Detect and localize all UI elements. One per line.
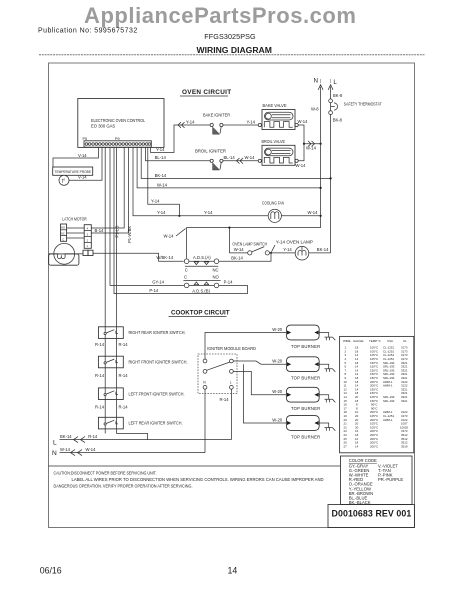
svg-text:DANGEROUS OPERATION. VERIFY PR: DANGEROUS OPERATION. VERIFY PROPER OPERA… [54,483,193,488]
svg-text:R-14: R-14 [220,397,230,402]
latch motor M2 [49,243,79,265]
svg-text:A.D.S.(A): A.D.S.(A) [193,255,211,260]
svg-text:N: N [52,450,57,457]
top burner 1 [272,325,335,349]
wire module L down R-14 [220,389,232,439]
svg-text:BK-14: BK-14 [231,256,243,261]
svg-text:1: 1 [87,244,89,248]
svg-text:Y-14: Y-14 [151,199,160,204]
svg-text:COLOR CODE: COLOR CODE [349,458,377,463]
svg-text:BROIL IGNITER: BROIL IGNITER [195,149,226,154]
wire Y-14 igniter to bake valve [223,119,258,125]
igniter switch right rear [98,327,185,339]
svg-text:Y-14 OVEN LAMP: Y-14 OVEN LAMP [276,240,313,245]
svg-text:Publication No: 5995675732: Publication No: 5995675732 [38,28,138,35]
wire switch chain right [116,147,118,433]
svg-text:GAUGE: GAUGE [353,339,364,343]
svg-text:W-20: W-20 [272,389,283,394]
safety thermostat [329,87,382,123]
svg-text:BROIL VALVE: BROIL VALVE [262,139,286,144]
bake igniter [210,123,223,134]
top burner 4 [272,416,335,440]
supply L line [53,434,231,446]
svg-text:W-20: W-20 [272,359,283,364]
svg-text:BK-14: BK-14 [60,434,72,439]
svg-text:AppliancePartsPros.com: AppliancePartsPros.com [84,3,357,28]
wire GY-14 to ADS B [110,147,184,285]
svg-text:LATCH MOTOR: LATCH MOTOR [62,217,86,222]
svg-text:R-14: R-14 [95,373,105,378]
wire W-14 to N line [304,141,322,150]
svg-text:AWM-1: AWM-1 [383,384,393,388]
svg-text:06/16: 06/16 [40,566,62,576]
svg-text:C: C [184,274,187,279]
title block D0010683 [328,505,414,528]
svg-text:W-14: W-14 [298,119,309,124]
caution separator [49,465,341,467]
svg-text:C: C [185,267,188,272]
wire module to burner 3 [233,371,286,394]
svg-text:EO 300 GAS: EO 300 GAS [91,124,115,129]
wires latch switch to terminal block [67,228,85,238]
svg-text:V-14: V-14 [78,175,87,180]
svg-text:W-14: W-14 [164,233,175,238]
svg-text:R-14: R-14 [95,405,105,410]
color code box [341,456,413,505]
electronic oven control U1 [78,99,164,148]
wire V-14 to temperature probe [53,147,98,167]
svg-text:27: 27 [344,444,348,448]
wire module to burner 4 [243,364,286,423]
svg-text:RIGHT REAR IGNITER SWITCH.: RIGHT REAR IGNITER SWITCH. [129,330,186,335]
wire switch chain left [104,147,106,433]
svg-text:TOP BURNER: TOP BURNER [291,406,320,411]
svg-text:SAFETY THERMOSTAT: SAFETY THERMOSTAT [344,101,382,106]
svg-text:Y-14: Y-14 [204,210,213,215]
svg-text:Y-14: Y-14 [157,210,166,215]
svg-text:RIGHT FRONT IGNITER SWITCH.: RIGHT FRONT IGNITER SWITCH. [129,360,188,365]
svg-text:BK-8: BK-8 [333,117,343,122]
wire V-14 probe return [69,147,102,180]
svg-text:W-14: W-14 [234,247,245,252]
svg-text:Y-14: Y-14 [156,147,165,152]
svg-text:W-8: W-8 [311,107,319,112]
svg-text:AWM-1: AWM-1 [383,418,393,422]
wire W-14 [137,147,322,189]
wire BL-14 / W-14 igniter to broil valve [223,155,258,163]
svg-text:W/BK-14: W/BK-14 [156,255,173,260]
svg-text:LEFT FRONT IGNITER SWITCH.: LEFT FRONT IGNITER SWITCH. [129,391,185,396]
igniter module board [198,346,256,393]
svg-text:3321: 3321 [401,399,408,403]
igniter switch left rear [98,417,182,429]
supply terminal N [314,77,324,90]
broil valve [258,139,306,168]
svg-text:TOP BURNER: TOP BURNER [291,435,320,440]
terminal strip of oven control [84,141,151,147]
svg-text:GY-14: GY-14 [152,279,164,284]
svg-text:NO: NO [213,274,220,279]
oven circuit title [180,89,231,96]
svg-text:Y-14: Y-14 [186,119,195,124]
latch terminal block [84,225,91,249]
wire Y-14 to cooling fan [133,147,268,216]
svg-text:N: N [203,381,206,385]
svg-text:R-14: R-14 [119,342,129,347]
latch switch block [61,224,67,241]
svg-text:TEMPERATURE PROBE: TEMPERATURE PROBE [55,169,92,174]
wire gauge table [340,336,414,452]
svg-text:P1-W/BK: P1-W/BK [127,226,132,243]
igniter switch right front [98,356,187,368]
wire latch to control 2 [91,147,128,233]
svg-text:3519: 3519 [401,444,408,448]
svg-text:TOP BURNER: TOP BURNER [291,344,320,349]
latch motor connector [75,250,93,255]
diagram frame [49,63,415,528]
svg-text:IGNITER MODULE BOARD: IGNITER MODULE BOARD [207,346,256,351]
svg-text:A.D.S.(B): A.D.S.(B) [192,289,210,294]
svg-text:3: 3 [87,232,89,236]
svg-text:R-14: R-14 [119,373,129,378]
terminal circles P5/P9 [85,143,151,146]
cooktop circuit title [169,310,230,317]
wire module to burner 2 [233,361,286,364]
bake valve [258,103,308,129]
svg-text:V-14: V-14 [78,153,87,158]
svg-text:BL-14: BL-14 [155,155,167,160]
supply N line [52,447,205,457]
svg-text:W-20: W-20 [272,417,283,422]
svg-text:BAKE VALVE: BAKE VALVE [263,103,287,108]
svg-text:NO: NO [61,226,65,230]
svg-text:BK-14: BK-14 [155,173,167,178]
svg-text:TOP BURNER: TOP BURNER [291,376,320,381]
svg-text:PR.-PURPLE: PR.-PURPLE [378,477,403,482]
N line W-8 [311,87,321,228]
svg-text:W-14: W-14 [245,155,256,160]
svg-text:14: 14 [228,566,238,576]
svg-text:CSA: CSA [387,339,393,343]
svg-text:COOLING FAN: COOLING FAN [262,200,284,205]
broil igniter [210,159,223,170]
svg-text:UL: UL [403,339,407,343]
wire Y-14 upper [148,147,181,217]
wire switch chain to L supply [117,434,148,440]
svg-text:NC: NC [213,267,219,272]
svg-text:P-14: P-14 [224,279,234,284]
svg-text:NC: NC [61,232,65,236]
svg-text:N: N [314,77,318,84]
caution text [54,471,325,489]
svg-text:BK-14: BK-14 [317,247,329,252]
svg-text:B-14: B-14 [95,228,105,233]
door switch A.D.S.(A) [184,255,219,273]
header rule [39,54,425,56]
svg-text:W-14: W-14 [86,447,97,452]
svg-text:W-14: W-14 [296,163,307,168]
wire P-14 ADS B return [114,147,247,293]
svg-text:TEMP.°C: TEMP.°C [369,339,381,343]
door switch A.D.S.(B) [183,274,220,293]
svg-text:Y-14: Y-14 [247,119,256,124]
svg-text:COOKTOP CIRCUIT: COOKTOP CIRCUIT [171,310,230,317]
svg-text:BK-8: BK-8 [333,93,343,98]
svg-text:P5: P5 [83,137,88,141]
wire module to burner 1 [205,333,286,360]
svg-text:14: 14 [355,444,359,448]
svg-text:4: 4 [87,227,89,231]
svg-text:WIRING DIAGRAM: WIRING DIAGRAM [197,45,272,55]
wire BK-14 [141,147,332,179]
svg-text:L: L [53,439,57,446]
temperature probe [53,167,93,185]
svg-text:BL-14: BL-14 [224,155,236,160]
svg-text:LABEL ALL WIRES PRIOR TO DISCO: LABEL ALL WIRES PRIOR TO DISCONNECTION W… [72,477,325,482]
oven lamp DS1 [272,240,331,260]
svg-text:C: C [62,237,64,241]
svg-text:P9: P9 [115,137,120,141]
svg-text:OVEN CIRCUIT: OVEN CIRCUIT [182,89,231,96]
svg-text:R-14: R-14 [88,434,98,439]
svg-text:SRL-193: SRL-193 [383,399,395,403]
svg-text:W-14: W-14 [157,182,168,187]
supply terminal L [328,79,337,90]
svg-text:WIRE: WIRE [343,339,351,343]
wire W-14 fan return [281,210,321,217]
wire W-14 valve outputs [298,125,305,161]
svg-text:FFGS3025PSG: FFGS3025PSG [204,32,256,41]
svg-text:R-14: R-14 [95,342,105,347]
wire BK-14 ADS A to lamp [219,253,271,261]
igniter switch left front [98,388,184,400]
svg-text:OVEN LAMP SWITCH: OVEN LAMP SWITCH [232,242,267,247]
svg-text:t°: t° [62,178,65,184]
svg-text:L: L [333,79,337,86]
svg-text:W-14: W-14 [306,145,317,150]
top burner 2 [272,357,335,381]
svg-text:BAKE IGNITER: BAKE IGNITER [203,113,230,118]
svg-text:200°C: 200°C [370,444,378,448]
wire B-14 latch to control [91,147,124,233]
svg-text:R-14: R-14 [119,405,129,410]
svg-text:W-14: W-14 [308,210,319,215]
svg-text:W-14: W-14 [60,447,71,452]
svg-text:W-20: W-20 [272,327,283,332]
top burner 3 [272,387,335,411]
svg-text:P-14: P-14 [149,288,159,293]
cooling fan M1 [262,200,284,222]
wire lamp circuit feed from N [164,227,321,259]
L line BK-8 [330,115,332,253]
oven lamp switch S1 [229,242,295,255]
wire Y-14 to bake igniter [151,119,210,152]
svg-text:L: L [230,381,232,385]
svg-text:CAUTION:DISCONNECT POWER BEFOR: CAUTION:DISCONNECT POWER BEFORE SERVICIN… [54,471,157,476]
svg-text:2: 2 [87,238,89,242]
svg-text:Y-14: Y-14 [283,247,292,252]
svg-text:D0010683 REV 001: D0010683 REV 001 [332,509,412,519]
svg-text:ELECTRONIC OVEN CONTROL: ELECTRONIC OVEN CONTROL [91,118,146,123]
svg-text:LEFT REAR IGNITER SWITCH.: LEFT REAR IGNITER SWITCH. [129,421,183,426]
wire W/BK-14 latch to ADS A [93,253,184,261]
wire module N down [204,389,206,452]
wire BL-14 to broil igniter [146,147,211,161]
